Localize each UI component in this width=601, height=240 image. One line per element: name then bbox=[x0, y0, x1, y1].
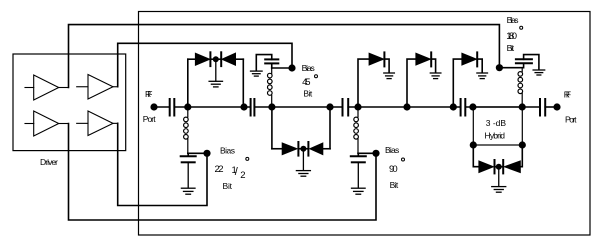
wire driver A1 to 180-deg bias bbox=[69, 25, 500, 88]
svg-text:Bit: Bit bbox=[223, 181, 233, 191]
label RF Port right bbox=[564, 90, 577, 125]
wire driver A3 to 90-deg bias bbox=[69, 124, 377, 221]
node J1 bbox=[184, 103, 191, 110]
amplifier A1 bbox=[25, 75, 69, 100]
label Bias 90 Bit bbox=[385, 145, 399, 190]
node J6 bbox=[403, 103, 410, 110]
amplifier A2 bbox=[77, 75, 118, 100]
svg-text:Bit: Bit bbox=[390, 180, 399, 190]
ground (45-deg pair) bbox=[209, 59, 222, 87]
diode D7 (180-deg bit) bbox=[453, 59, 462, 107]
diode D4 (22.5-deg bit) bbox=[307, 142, 309, 156]
diode D8 (hybrid) bbox=[479, 161, 494, 173]
svg-text:45: 45 bbox=[302, 77, 311, 88]
outer assembly box bbox=[139, 12, 591, 236]
svg-text:22: 22 bbox=[215, 164, 224, 175]
3-dB hybrid box bbox=[473, 107, 522, 145]
node J2 bbox=[240, 103, 247, 110]
node J7 bbox=[450, 103, 457, 110]
wire C4 to C5 bbox=[465, 106, 540, 108]
label RF Port left bbox=[143, 89, 157, 124]
svg-text:RF: RF bbox=[145, 89, 152, 99]
node hybrid bottom right bbox=[519, 141, 526, 148]
svg-text:Bias: Bias bbox=[302, 63, 315, 73]
label Bias 180 Bit bbox=[506, 15, 518, 53]
inductor L4 (180-deg bias) bbox=[518, 68, 523, 107]
wire hybrid left leg bbox=[473, 145, 479, 167]
svg-text:Bit: Bit bbox=[303, 88, 312, 98]
diode D6 (180-deg bit) bbox=[407, 59, 416, 107]
wire 45 bias to L2/C7 bbox=[272, 67, 292, 69]
RF input port bbox=[150, 103, 157, 110]
node hybrid bottom left bbox=[470, 141, 477, 148]
diode D1 (45-deg bit) bbox=[195, 53, 209, 65]
svg-text:3 -dB: 3 -dB bbox=[486, 118, 507, 128]
node J9 bbox=[519, 103, 526, 110]
node 180-deg bias bbox=[496, 64, 503, 71]
wire hybrid right leg bbox=[520, 145, 522, 167]
wire C2 to C3 bbox=[254, 106, 342, 108]
svg-text:2: 2 bbox=[240, 170, 245, 181]
svg-text:Driver: Driver bbox=[40, 157, 58, 167]
ground (90-deg bias) bbox=[352, 162, 366, 194]
node 45-deg bias bbox=[288, 64, 295, 71]
svg-text:RF: RF bbox=[564, 90, 571, 100]
svg-text:Port: Port bbox=[143, 114, 157, 124]
inductor L1 (22.5-deg bias) bbox=[184, 107, 189, 153]
label 3-dB Hybrid bbox=[485, 118, 507, 141]
wire RF in to C1 bbox=[154, 106, 170, 108]
wire L1 to 22.5 bias point bbox=[188, 152, 207, 154]
node 90-deg bias bbox=[372, 150, 379, 157]
svg-text:/: / bbox=[235, 166, 239, 178]
ground (180-deg bias) bbox=[533, 70, 545, 75]
capacitor C8 (90-deg bias bypass) bbox=[357, 153, 359, 156]
wire driver A4 to 22.5-deg bias bbox=[118, 123, 207, 205]
node J3 bbox=[268, 103, 275, 110]
diode D9 (hybrid) bbox=[502, 160, 504, 173]
wire riser 22.5-deg pair to J4 bbox=[329, 107, 331, 149]
capacitor C7 (45-deg bias bypass) bbox=[271, 63, 273, 68]
capacitor C1 (DC block) bbox=[170, 99, 175, 116]
capacitor C9 (180-deg bias bypass) bbox=[523, 63, 525, 67]
amplifier A3 bbox=[25, 111, 69, 136]
node J8 bbox=[469, 103, 476, 110]
ground (22.5-deg bias) bbox=[181, 162, 195, 194]
diode D3 (22.5-deg bit) bbox=[282, 143, 297, 155]
node hybrid diode pair bbox=[496, 164, 502, 170]
ground (D7) bbox=[477, 73, 488, 79]
svg-text:Bias: Bias bbox=[220, 146, 235, 156]
amplifier A4 bbox=[77, 111, 118, 136]
ground (D5) bbox=[384, 73, 395, 79]
svg-text:Bit: Bit bbox=[507, 43, 515, 53]
wire C3 to C4 bbox=[348, 106, 460, 108]
label Bias 22.5 Bit bbox=[215, 146, 246, 192]
ground (22.5-deg pair) bbox=[296, 149, 310, 176]
wire driver A2 to 45-deg bias bbox=[118, 43, 292, 86]
wire C5 to RF out bbox=[545, 106, 557, 108]
svg-text:Bias: Bias bbox=[385, 145, 399, 155]
inductor L2 (45-deg bias) bbox=[268, 68, 273, 107]
svg-text:Hybrid: Hybrid bbox=[485, 130, 506, 140]
wire 180 bias to L4/C9 bbox=[499, 67, 522, 69]
RF output port bbox=[553, 103, 560, 110]
label Driver bbox=[40, 157, 58, 167]
svg-text:90: 90 bbox=[389, 164, 398, 175]
node diode pair 45 bbox=[213, 56, 219, 62]
wire L3 to 90 bias point bbox=[358, 152, 376, 154]
ground (hybrid pair) bbox=[492, 167, 506, 193]
svg-text:180: 180 bbox=[506, 31, 517, 42]
ground (D6) bbox=[430, 73, 441, 79]
capacitor C2 (DC block) bbox=[251, 99, 255, 116]
wire riser J3 to 22.5-deg diode pair bbox=[271, 107, 273, 149]
capacitor C3 (DC block) bbox=[343, 99, 349, 116]
node 22.5-deg bias bbox=[203, 150, 210, 157]
wire riser J1 to 45-deg diode pair bbox=[187, 59, 189, 107]
driver box bbox=[13, 54, 126, 151]
capacitor C5 (DC block) bbox=[540, 99, 545, 116]
capacitor C6 (22.5-deg bias bypass) bbox=[187, 153, 189, 156]
node J5 bbox=[354, 103, 361, 110]
node J4 bbox=[326, 103, 333, 110]
diode D2 (45-deg bit) bbox=[220, 52, 222, 66]
label Bias 45 Bit bbox=[302, 63, 315, 98]
wire C1 to C2 bbox=[174, 106, 250, 108]
ground (45-deg bias) bbox=[251, 71, 263, 76]
svg-text:Port: Port bbox=[565, 115, 577, 125]
inductor L3 (90-deg bias) bbox=[354, 107, 359, 153]
wire riser 45-deg pair to J2 bbox=[242, 59, 244, 107]
capacitor C4 (DC block) bbox=[461, 99, 466, 116]
diode D5 (180-deg bit) bbox=[358, 59, 369, 107]
svg-text:Bias: Bias bbox=[507, 15, 519, 25]
node diode pair 22.5 bbox=[300, 146, 306, 152]
